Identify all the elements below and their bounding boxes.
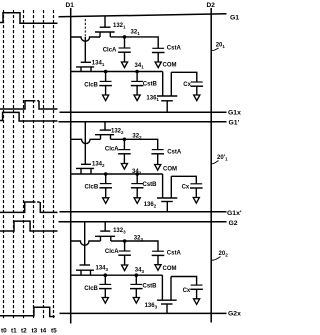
svg-text:CstB: CstB	[143, 182, 158, 188]
capacitor CstA (block1)	[152, 48, 165, 52]
svg-text:ClcB: ClcB	[84, 83, 98, 89]
svg-text:G1x: G1x	[228, 110, 241, 117]
wire 132_3 to CstA corner	[111, 241, 158, 251]
capacitor CIcA (block1)	[118, 48, 131, 52]
wire 132_1 to CstA corner	[110, 37, 158, 48]
svg-text:322: 322	[132, 134, 142, 141]
svg-text:D2: D2	[207, 2, 216, 9]
node CIcA junction (block3)	[123, 239, 127, 243]
svg-text:342: 342	[132, 169, 142, 176]
capacitor Cx (block3)	[190, 285, 203, 289]
svg-text:1323: 1323	[113, 228, 126, 235]
transistor 136_2	[162, 174, 164, 198]
capacitor CstB (block3)	[130, 284, 143, 288]
capacitor CstB (block1)	[131, 81, 144, 85]
svg-text:1362: 1362	[144, 202, 157, 209]
ground arrow under Cx	[194, 95, 200, 101]
capacitor CstA (block2)	[151, 150, 164, 154]
ground arrow under CIcA (block2)	[121, 164, 127, 170]
svg-text:G1x': G1x'	[227, 210, 242, 217]
gate line G2	[59, 221, 227, 223]
pixel pointer 20_2	[212, 257, 221, 261]
svg-text:201: 201	[216, 43, 226, 50]
ground arrow under CIcA	[121, 62, 127, 68]
dashed timing line t1	[13, 10, 15, 320]
gate line G1x	[60, 111, 227, 113]
wire D1 to 132_3 with hop	[71, 241, 101, 245]
svg-text:1361: 1361	[146, 95, 159, 102]
svg-text:Cx: Cx	[183, 288, 191, 294]
node CIcA junction (block2)	[123, 138, 127, 142]
transistor 136_1	[162, 72, 164, 97]
node CIcA junction	[123, 35, 127, 39]
node CIcB junction	[104, 70, 108, 74]
dashed timing line t0	[3, 10, 5, 320]
svg-text:CstB: CstB	[143, 284, 158, 290]
transistor 134_2	[81, 163, 91, 165]
svg-text:G2x: G2x	[228, 310, 241, 317]
wire to Cx	[171, 72, 197, 82]
svg-text:343: 343	[135, 268, 145, 275]
COM arrow under CstA (block3)	[155, 265, 161, 271]
svg-text:CstA: CstA	[167, 46, 182, 52]
capacitor CstB (block2)	[131, 184, 144, 188]
svg-text:20'1: 20'1	[217, 155, 228, 162]
transistor 134_1	[81, 61, 91, 63]
transistor 132_2	[104, 122, 106, 130]
waveform G1' pulse	[0, 112, 58, 121]
svg-text:D1: D1	[66, 2, 75, 9]
svg-text:ClcB: ClcB	[84, 286, 98, 292]
svg-text:COM: COM	[163, 166, 177, 172]
svg-text:t5: t5	[51, 328, 57, 335]
pixel pointer 20'_1	[212, 161, 219, 164]
dashed timing line t4	[43, 10, 45, 320]
svg-text:t4: t4	[41, 328, 47, 335]
svg-text:CstA: CstA	[167, 251, 182, 257]
svg-text:ClcB: ClcB	[85, 185, 99, 191]
wire to Cx (block2)	[171, 176, 196, 184]
capacitor CstA (block3)	[152, 251, 165, 255]
COM arrow under CstA	[155, 62, 161, 68]
transistor 132_3	[104, 222, 106, 231]
waveform G1x' pulse	[0, 202, 33, 212]
node CstB junction	[135, 70, 139, 74]
dashed timing line t3	[33, 10, 35, 320]
capacitor CIcB (block1)	[99, 81, 112, 85]
svg-text:1322: 1322	[111, 128, 124, 135]
gate line of 134_3	[84, 222, 86, 265]
waveform G2 pulse	[0, 221, 58, 231]
data line D1	[70, 8, 72, 324]
svg-text:t3: t3	[32, 328, 38, 335]
capacitor CIcA (block3)	[118, 251, 131, 255]
waveform G2x pulse	[0, 307, 55, 316]
svg-text:323: 323	[134, 235, 144, 242]
svg-text:G1: G1	[230, 14, 239, 21]
svg-text:Cx: Cx	[182, 185, 190, 191]
waveform G1x pulse	[0, 101, 33, 109]
data line D2	[210, 8, 212, 323]
gate line of 134_1	[84, 19, 86, 37]
svg-text:ClcA: ClcA	[103, 47, 117, 53]
pixel pointer 20_1	[212, 48, 219, 50]
long wire 34 (block3)	[71, 274, 163, 276]
gate line of 134_2	[84, 122, 86, 164]
wire to Cx (block3)	[171, 277, 197, 286]
waveform G1 pulse	[0, 13, 58, 23]
svg-text:G1': G1'	[229, 120, 240, 127]
svg-text:COM: COM	[163, 266, 177, 272]
dashed timing line t2	[23, 10, 25, 320]
long wire 34	[71, 71, 163, 73]
svg-text:1341: 1341	[92, 60, 105, 67]
capacitor CIcA (block2)	[118, 150, 131, 154]
ground arrow under Cx (block3)	[194, 299, 200, 305]
ground arrow under CIcB	[103, 95, 109, 101]
svg-text:Cx: Cx	[183, 82, 191, 88]
transistor 134_3	[80, 264, 91, 266]
wire D1 to 132_2 with hop	[71, 139, 101, 143]
svg-text:G2: G2	[229, 220, 238, 227]
svg-text:1343: 1343	[96, 265, 109, 272]
svg-text:t1: t1	[11, 328, 17, 335]
svg-text:t2: t2	[21, 328, 27, 335]
gate line G1x'	[60, 211, 227, 213]
wire 132_2 to CstA corner	[111, 139, 158, 149]
gate line G1'	[59, 121, 227, 123]
node CIcB junction (block2)	[104, 172, 108, 176]
ground arrow under CstB (block2)	[134, 198, 140, 204]
svg-text:t0: t0	[1, 328, 7, 335]
ground arrow under CstB	[134, 95, 140, 101]
dashed timing line t5	[53, 10, 55, 320]
capacitor CIcB (block2)	[99, 184, 112, 188]
svg-text:341: 341	[135, 63, 145, 70]
ground arrow under Cx (block2)	[193, 198, 199, 204]
svg-text:202: 202	[219, 251, 229, 258]
svg-text:1363: 1363	[145, 303, 158, 310]
long wire 34 (block2)	[71, 173, 163, 175]
wire D1 to 132_1 with hop	[71, 37, 100, 41]
node CstB junction (block3)	[135, 273, 139, 277]
capacitor CIcB (block3)	[99, 284, 112, 288]
svg-text:ClcA: ClcA	[105, 249, 119, 255]
ground arrow under CstB (block3)	[133, 298, 139, 304]
transistor 136_3	[161, 275, 163, 300]
svg-text:COM: COM	[163, 63, 177, 69]
gate line G1	[59, 14, 227, 17]
svg-text:1321: 1321	[113, 23, 126, 30]
COM arrow under CstA (block2)	[155, 165, 161, 171]
node CstB junction (block2)	[135, 172, 139, 176]
node CIcB junction (block3)	[104, 273, 108, 277]
ground arrow under CIcA (block3)	[122, 265, 128, 271]
svg-text:1342: 1342	[92, 161, 105, 168]
capacitor Cx (block2)	[190, 184, 203, 188]
svg-text:321: 321	[131, 30, 141, 37]
ground arrow under CIcB (block2)	[103, 198, 109, 204]
svg-text:ClcA: ClcA	[105, 147, 119, 153]
svg-text:CstB: CstB	[143, 82, 158, 88]
gate line G2x	[60, 312, 227, 314]
svg-text:CstA: CstA	[167, 150, 182, 156]
ground arrow under CIcB (block3)	[102, 298, 108, 304]
transistor 132_1	[104, 16, 106, 27]
capacitor Cx (block1)	[191, 82, 204, 86]
